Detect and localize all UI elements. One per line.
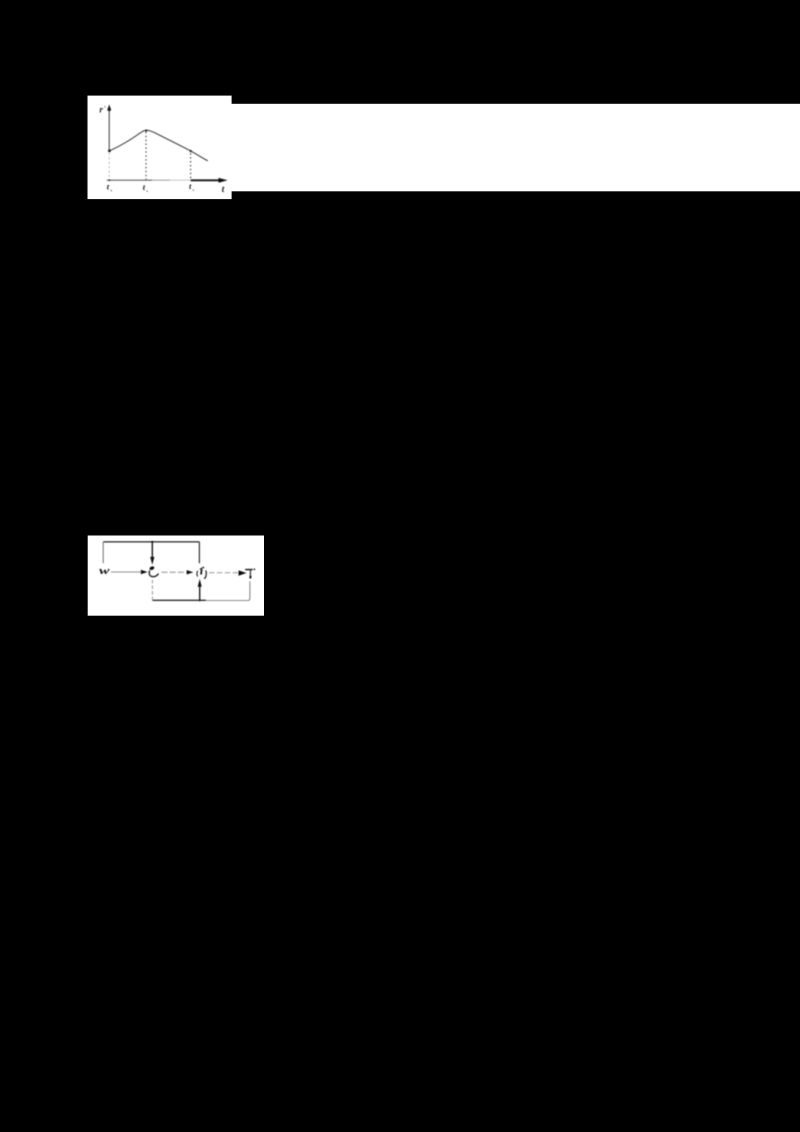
arrowhead into G — [187, 570, 194, 574]
wire: summing node to G — [162, 571, 187, 573]
label t3 — [189, 181, 194, 191]
wire: bottom feedback rail — [152, 599, 247, 601]
wire: top feedforward rail — [103, 541, 199, 543]
wire: G to output — [209, 572, 238, 574]
x-axis (t axis) — [107, 179, 219, 181]
label t2 — [143, 182, 148, 192]
x-axis arrowhead — [219, 178, 228, 183]
dotted line at t3 — [190, 153, 192, 179]
svg-text:r: r — [99, 104, 103, 114]
y-axis (r axis) — [108, 107, 110, 180]
svg-text:w: w — [99, 566, 111, 577]
label r — [99, 104, 105, 114]
label t (axis) — [222, 184, 225, 194]
wire: bottom rail up into G (arrow up) — [198, 579, 202, 600]
output node T — [245, 568, 255, 578]
node: bottom rail junction under G — [199, 599, 201, 601]
y-axis arrowhead — [107, 105, 111, 112]
wire: left vertical from w up to rail — [102, 542, 104, 563]
figure 1 white panel (graph) — [88, 96, 232, 200]
figure 2 white panel (block diagram) — [88, 536, 264, 616]
node: curve peak at t2 — [145, 130, 147, 132]
wire: rail right vertical down to block G — [198, 542, 200, 563]
dotted line at t2 — [145, 132, 147, 180]
wire: summing node down to bottom rail — [151, 580, 153, 601]
label t1 — [107, 182, 112, 192]
wire: drop from rail into summing node (arrow down) — [150, 542, 154, 565]
arrowhead at output — [239, 570, 247, 575]
arrowhead into summing node — [141, 570, 148, 574]
wire: output feedback right vertical — [247, 581, 250, 600]
curve r(t) — [109, 130, 208, 161]
node: rail junction above summing point — [151, 541, 153, 543]
node w (input label) — [99, 566, 111, 577]
figure 1 white band extending right — [230, 104, 800, 192]
node: curve start on y-axis — [108, 150, 111, 153]
node: curve at t3 — [190, 150, 192, 152]
origin tick — [108, 179, 110, 181]
summing node c — [149, 566, 158, 577]
block G — [197, 567, 206, 578]
wire: w to summing node — [111, 571, 141, 573]
